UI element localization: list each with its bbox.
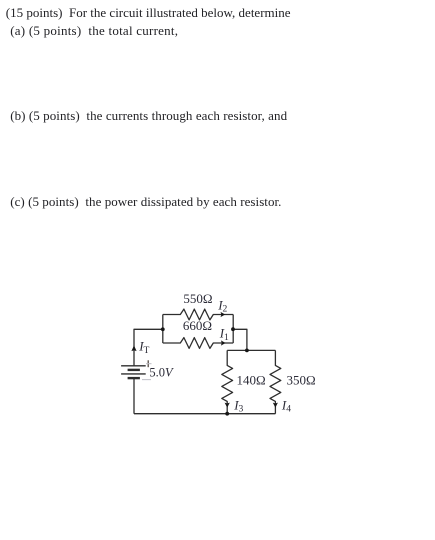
svg-text:140Ω: 140Ω xyxy=(237,372,266,387)
svg-text:I3: I3 xyxy=(233,398,243,415)
svg-text:I1: I1 xyxy=(219,326,229,343)
svg-text:5.0V: 5.0V xyxy=(149,365,174,379)
svg-text:350Ω: 350Ω xyxy=(287,372,316,387)
svg-text:550Ω: 550Ω xyxy=(183,291,212,306)
svg-text:I4: I4 xyxy=(281,397,291,414)
svg-text:I2: I2 xyxy=(217,297,227,314)
svg-text:IT: IT xyxy=(138,339,149,357)
svg-text:660Ω: 660Ω xyxy=(183,318,212,333)
